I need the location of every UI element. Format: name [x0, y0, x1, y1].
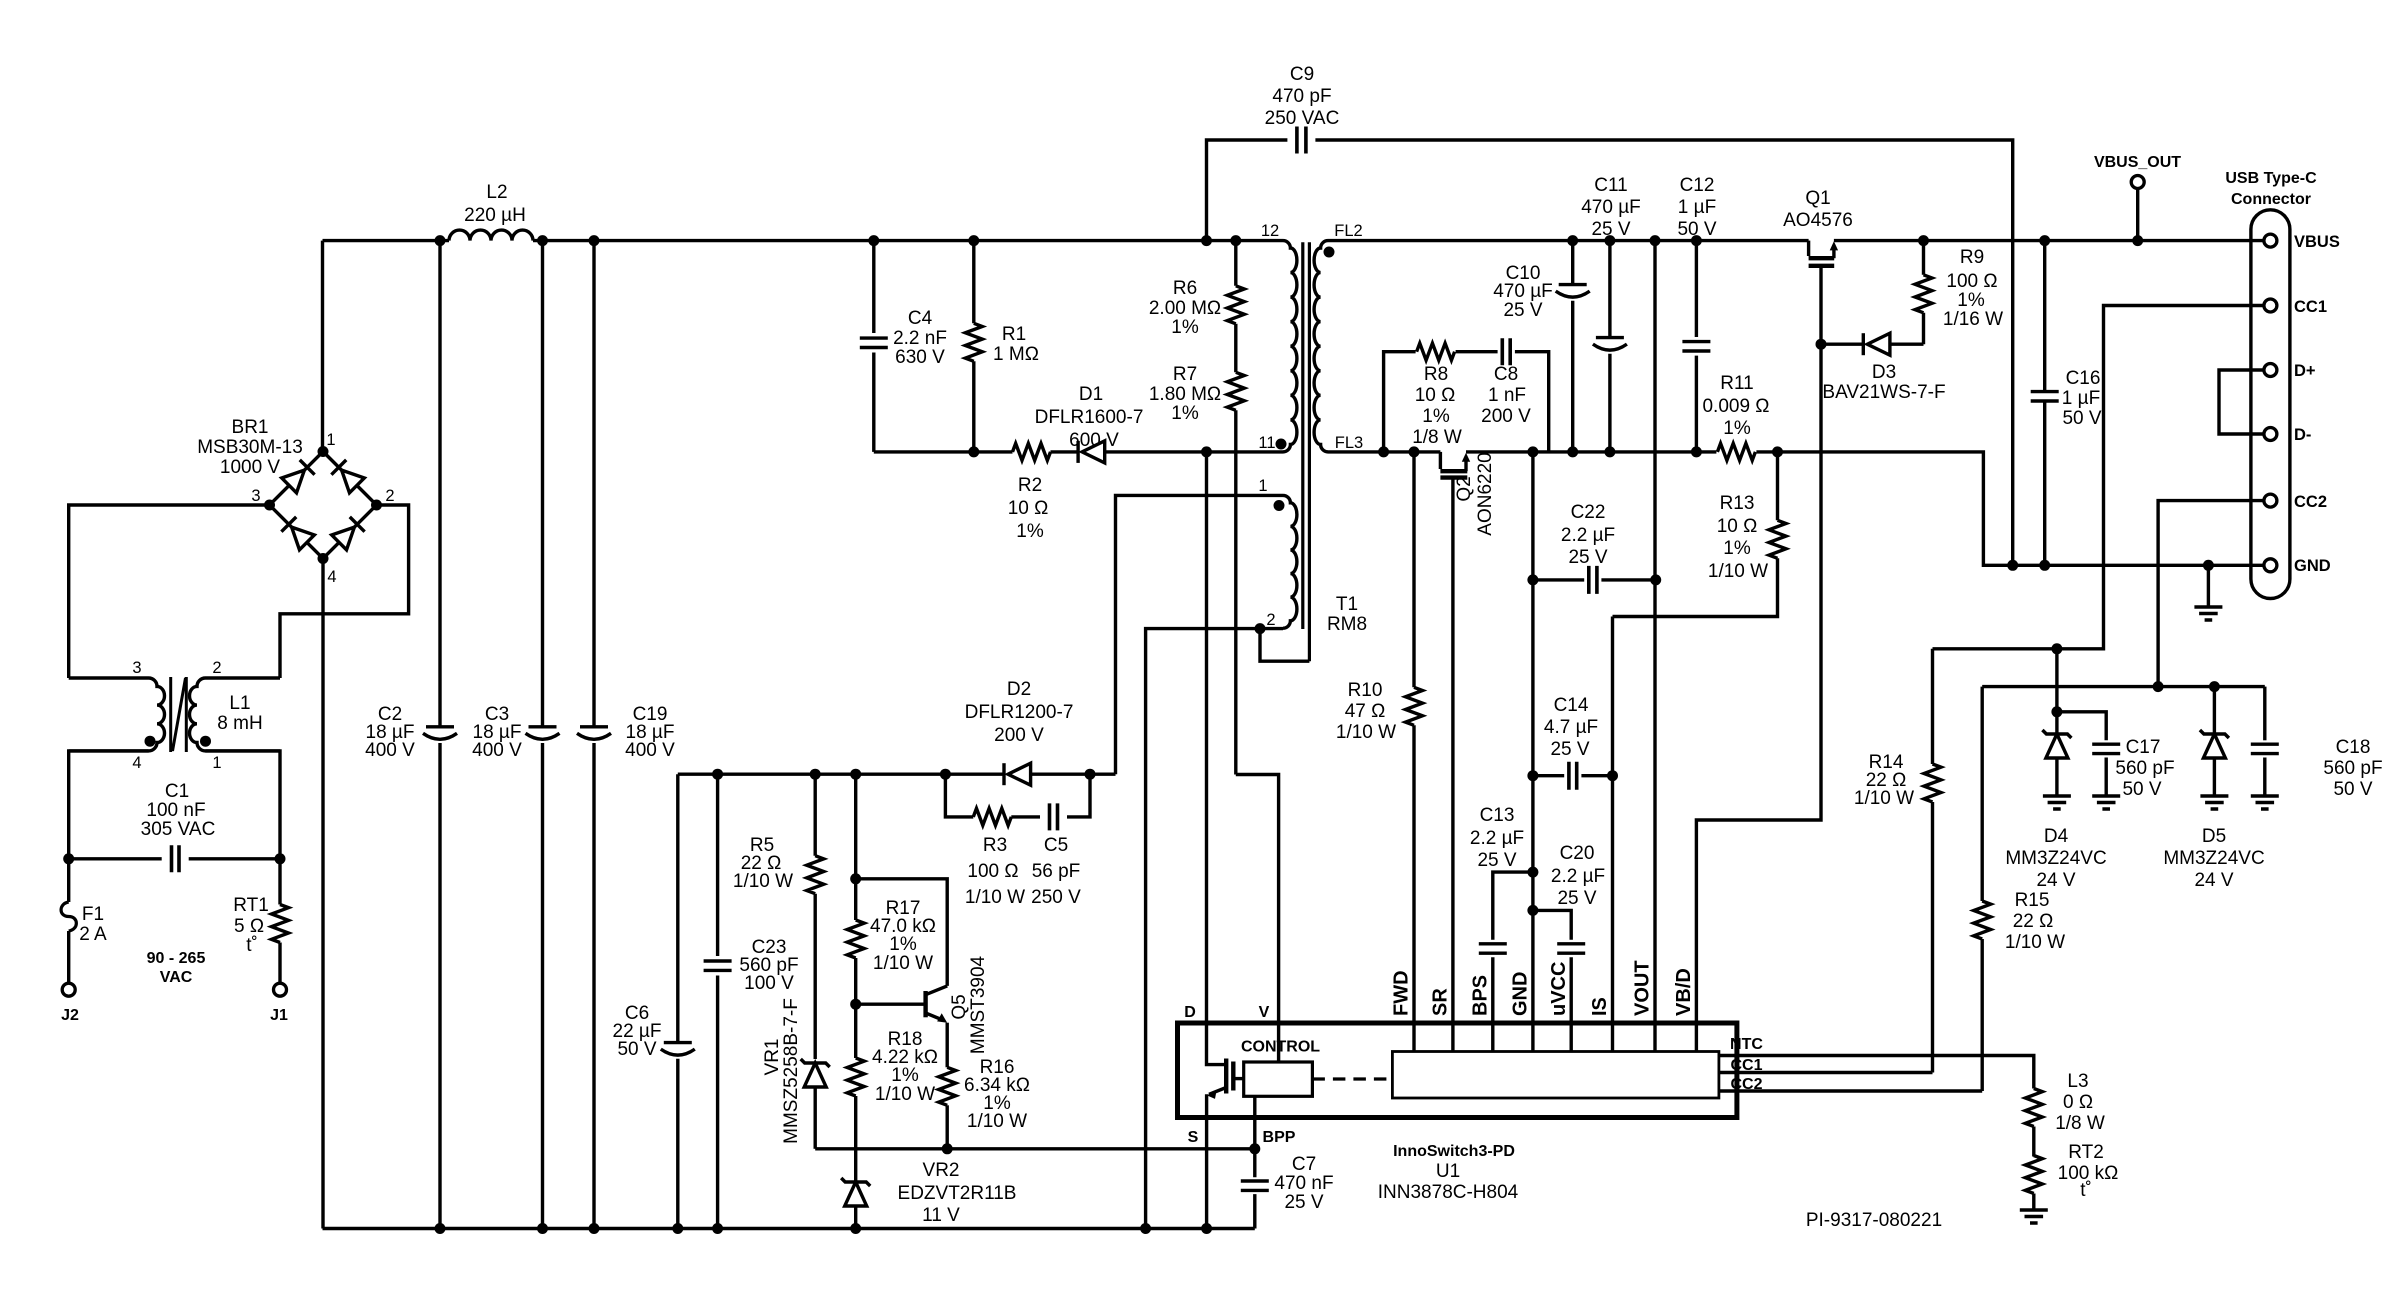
svg-text:C11: C11	[1594, 175, 1627, 196]
svg-text:1 µF: 1 µF	[2062, 388, 2100, 409]
wire BPS pin line + capacitor C13	[1493, 872, 1533, 1051]
zener VR2	[841, 1178, 870, 1206]
svg-text:C12: C12	[1680, 175, 1715, 196]
wire R3 C5 loop	[945, 774, 1090, 817]
svg-text:C5: C5	[1044, 835, 1068, 856]
transformer T1 phase dots	[1324, 247, 1335, 258]
svg-text:56 pF: 56 pF	[1032, 861, 1081, 882]
svg-text:R7: R7	[1173, 364, 1197, 385]
svg-text:CC1: CC1	[1730, 1057, 1762, 1074]
diode D3	[1821, 343, 1924, 346]
pin VBUS	[2264, 234, 2277, 247]
diode D2	[1004, 763, 1031, 785]
svg-text:t˚: t˚	[246, 935, 258, 956]
svg-text:560 pF: 560 pF	[2323, 758, 2382, 779]
wire FWD pin line + resistor R10	[1412, 452, 1415, 1052]
svg-text:2: 2	[212, 659, 221, 677]
common-mode choke L1	[69, 678, 165, 751]
svg-text:2.2 nF: 2.2 nF	[893, 328, 947, 349]
resistor R9	[1922, 241, 1925, 345]
svg-text:AON6220: AON6220	[1475, 452, 1496, 535]
MOSFET Q2 sync rectifier	[1439, 452, 1442, 469]
wire T1 pin2 shield stub	[1260, 629, 1309, 662]
zener D4 branch	[2057, 649, 2106, 741]
svg-text:FWD: FWD	[1391, 970, 1413, 1016]
svg-text:D3: D3	[1872, 362, 1896, 383]
wire L1 pin4 to J2	[69, 751, 149, 983]
svg-text:SR: SR	[1430, 988, 1452, 1016]
svg-text:RT1: RT1	[233, 895, 269, 916]
transformer T1 core	[1301, 242, 1304, 629]
wire CC1 net	[1933, 306, 2264, 649]
svg-text:470 pF: 470 pF	[1272, 86, 1331, 107]
svg-text:1%: 1%	[1422, 406, 1450, 427]
wire clamp node to pin11	[874, 450, 1283, 453]
svg-text:11: 11	[1258, 434, 1275, 452]
svg-text:R11: R11	[1720, 373, 1753, 394]
svg-text:D5: D5	[2202, 826, 2226, 847]
svg-text:S: S	[1188, 1129, 1199, 1146]
svg-text:GND: GND	[2294, 557, 2331, 575]
terminal J1	[274, 983, 287, 996]
IC U1 outer box	[1178, 1023, 1737, 1118]
svg-text:R13: R13	[1720, 493, 1755, 514]
svg-text:1 µF: 1 µF	[1678, 197, 1716, 218]
svg-text:24 V: 24 V	[2036, 870, 2075, 891]
svg-text:1/10 W: 1/10 W	[875, 1084, 935, 1105]
wire L1 pin1 to RT1	[205, 751, 280, 983]
svg-text:INN3878C-H804: INN3878C-H804	[1378, 1182, 1519, 1203]
svg-text:200 V: 200 V	[1481, 406, 1531, 427]
wire VOUT pin line	[1653, 241, 1656, 1052]
wire CC2 pin	[1719, 1089, 1982, 1092]
svg-text:R9: R9	[1960, 247, 1984, 268]
svg-text:R1: R1	[1002, 324, 1026, 345]
svg-text:1%: 1%	[1016, 521, 1044, 542]
svg-text:FL3: FL3	[1335, 434, 1363, 452]
svg-text:1/8 W: 1/8 W	[2055, 1113, 2105, 1134]
svg-text:22 Ω: 22 Ω	[2013, 911, 2054, 932]
capacitor C14	[1533, 774, 1613, 777]
svg-text:C16: C16	[2066, 368, 2101, 389]
svg-text:2: 2	[385, 487, 394, 505]
svg-text:1/10 W: 1/10 W	[2005, 932, 2065, 953]
IC U1 inner secondary block	[1392, 1052, 1719, 1099]
terminal VBUS_OUT	[2136, 189, 2139, 241]
resistor R8	[1417, 343, 1455, 360]
capacitor C8	[1502, 338, 1510, 365]
zener D5 branch	[2213, 687, 2216, 734]
svg-text:1: 1	[326, 431, 335, 449]
svg-text:1: 1	[1258, 477, 1267, 495]
svg-text:630 V: 630 V	[895, 347, 945, 368]
svg-text:305 VAC: 305 VAC	[141, 819, 216, 840]
svg-text:RT2: RT2	[2068, 1142, 2104, 1163]
wire CC1 pin	[1719, 1071, 1933, 1074]
svg-text:1%: 1%	[889, 934, 917, 955]
resistor R18	[854, 1004, 857, 1182]
svg-text:C9: C9	[1290, 64, 1314, 85]
svg-text:0.009 Ω: 0.009 Ω	[1702, 396, 1769, 417]
svg-text:VBUS_OUT: VBUS_OUT	[2094, 154, 2181, 171]
diode D1	[1078, 441, 1105, 463]
svg-text:EDZVT2R11B: EDZVT2R11B	[898, 1183, 1017, 1204]
svg-text:1 MΩ: 1 MΩ	[993, 344, 1039, 365]
svg-text:25 V: 25 V	[1477, 850, 1516, 871]
svg-text:NTC: NTC	[1730, 1036, 1763, 1053]
svg-text:600 V: 600 V	[1069, 430, 1119, 451]
svg-text:1.80 MΩ: 1.80 MΩ	[1149, 384, 1221, 405]
svg-text:BR1: BR1	[232, 417, 269, 438]
wire top rail primary DC bus	[323, 239, 1284, 242]
svg-text:1%: 1%	[1723, 418, 1751, 439]
bridge rectifier BR1	[270, 452, 377, 559]
IC U1 CONTROL box	[1244, 1062, 1313, 1096]
svg-text:CONTROL: CONTROL	[1241, 1039, 1320, 1056]
svg-text:2.00 MΩ: 2.00 MΩ	[1149, 298, 1221, 319]
svg-text:BAV21WS-7-F: BAV21WS-7-F	[1822, 382, 1945, 403]
svg-text:1%: 1%	[1171, 403, 1199, 424]
svg-text:5 Ω: 5 Ω	[234, 916, 264, 937]
svg-text:R8: R8	[1424, 364, 1448, 385]
svg-text:1/10 W: 1/10 W	[967, 1111, 1027, 1132]
wire uVCC pin line + capacitor C20	[1533, 910, 1571, 1051]
svg-text:VOUT: VOUT	[1632, 960, 1654, 1016]
svg-text:50 V: 50 V	[617, 1039, 656, 1060]
svg-text:VR1: VR1	[762, 1039, 783, 1076]
svg-text:1/10 W: 1/10 W	[1708, 561, 1768, 582]
capacitor C9	[1207, 140, 2013, 565]
svg-text:C4: C4	[908, 308, 933, 329]
svg-text:50 V: 50 V	[2062, 408, 2101, 429]
svg-text:200 V: 200 V	[994, 725, 1044, 746]
svg-text:100 V: 100 V	[744, 973, 794, 994]
capacitor C5	[1050, 803, 1058, 830]
svg-text:InnoSwitch3-PD: InnoSwitch3-PD	[1393, 1143, 1515, 1160]
svg-text:AO4576: AO4576	[1783, 210, 1853, 231]
svg-text:560 pF: 560 pF	[2115, 758, 2174, 779]
svg-text:25 V: 25 V	[1550, 739, 1589, 760]
svg-text:1/8 W: 1/8 W	[1412, 427, 1462, 448]
svg-text:R15: R15	[2015, 890, 2050, 911]
resistor R17	[854, 774, 857, 1004]
svg-text:2.2 µF: 2.2 µF	[1561, 525, 1615, 546]
capacitor C16	[2043, 241, 2046, 566]
svg-text:J2: J2	[61, 1007, 79, 1024]
svg-text:250 V: 250 V	[1031, 887, 1081, 908]
svg-text:400 V: 400 V	[472, 740, 522, 761]
svg-text:400 V: 400 V	[625, 740, 675, 761]
resistor R6	[1234, 241, 1237, 373]
svg-text:C18: C18	[2336, 737, 2371, 758]
resistor R14	[1931, 649, 1934, 1073]
svg-text:250 VAC: 250 VAC	[1265, 108, 1340, 129]
pin D+	[2264, 364, 2277, 377]
resistor R2	[1013, 443, 1051, 460]
wire S pin line	[1205, 1094, 1208, 1228]
svg-text:L2: L2	[486, 182, 507, 203]
svg-text:MSB30M-13: MSB30M-13	[197, 437, 303, 458]
wire IS pin line	[1611, 617, 1614, 1052]
capacitor C12	[1695, 241, 1698, 452]
svg-text:D-: D-	[2294, 426, 2311, 444]
svg-text:DFLR1200-7: DFLR1200-7	[965, 702, 1074, 723]
wire NTC pin	[1719, 1056, 2034, 1089]
wire BPP return line	[815, 1147, 1255, 1150]
wire VB/D pin line	[1696, 344, 1821, 1051]
junction dots bottom rail	[435, 1223, 446, 1234]
svg-text:C14: C14	[1554, 695, 1589, 716]
wire R7 to V pin jog	[1236, 775, 1279, 1063]
svg-text:VR2: VR2	[923, 1160, 960, 1181]
svg-text:1/10 W: 1/10 W	[965, 887, 1025, 908]
svg-text:1000 V: 1000 V	[220, 457, 281, 478]
transformer T1 shield line	[1308, 242, 1311, 661]
svg-text:BPS: BPS	[1470, 975, 1492, 1016]
svg-text:C22: C22	[1571, 502, 1606, 523]
wire bias rail	[678, 773, 1116, 776]
wire FL3 rail (secondary return)	[1328, 452, 2264, 565]
inductor L2	[449, 230, 533, 240]
svg-text:50 V: 50 V	[2122, 779, 2161, 800]
svg-text:3: 3	[251, 487, 260, 505]
svg-text:1 nF: 1 nF	[1488, 385, 1526, 406]
svg-text:400 V: 400 V	[365, 740, 415, 761]
svg-text:F1: F1	[82, 904, 104, 925]
capacitor C4	[872, 241, 875, 452]
resistor R13	[1613, 452, 1778, 617]
svg-text:C7: C7	[1292, 1154, 1316, 1175]
svg-text:1/10 W: 1/10 W	[733, 871, 793, 892]
svg-text:R2: R2	[1018, 475, 1042, 496]
transistor Q5	[856, 879, 948, 986]
svg-text:VAC: VAC	[160, 969, 193, 986]
svg-text:CC1: CC1	[2294, 298, 2327, 316]
svg-text:MM3Z24VC: MM3Z24VC	[2005, 848, 2106, 869]
svg-text:1%: 1%	[1723, 538, 1751, 559]
pin GND	[2264, 559, 2277, 572]
svg-text:D+: D+	[2294, 362, 2316, 380]
thermistor RT1	[272, 905, 289, 943]
transformer T1 bias winding 1-2	[1283, 495, 1297, 628]
svg-text:VBUS: VBUS	[2294, 233, 2340, 251]
svg-text:470 µF: 470 µF	[1493, 281, 1553, 302]
svg-text:4.7 µF: 4.7 µF	[1544, 717, 1598, 738]
capacitor C10	[1571, 241, 1574, 452]
svg-text:100 Ω: 100 Ω	[967, 861, 1018, 882]
capacitor C22	[1533, 578, 1656, 581]
svg-text:MMSZ5258B-7-F: MMSZ5258B-7-F	[781, 998, 802, 1144]
IC right pin labels	[1730, 1036, 1763, 1093]
svg-text:1: 1	[212, 754, 221, 772]
svg-text:4: 4	[327, 568, 336, 586]
svg-text:C8: C8	[1494, 364, 1518, 385]
svg-text:2: 2	[1266, 611, 1275, 629]
resistor R5	[814, 774, 817, 1059]
svg-text:PI-9317-080221: PI-9317-080221	[1806, 1210, 1942, 1231]
svg-text:1/10 W: 1/10 W	[1854, 788, 1914, 809]
svg-text:2.2 µF: 2.2 µF	[1551, 866, 1605, 887]
resistor R11	[1717, 443, 1755, 460]
ground at GND rail	[2207, 565, 2210, 607]
capacitor C17	[2092, 744, 2120, 753]
svg-text:1%: 1%	[1171, 317, 1199, 338]
svg-text:D4: D4	[2044, 826, 2069, 847]
svg-text:12: 12	[1261, 222, 1279, 240]
wire BR1 pin2 to L1 pin2	[280, 505, 409, 678]
svg-text:T1: T1	[1336, 594, 1358, 615]
resistor R16	[939, 1067, 956, 1105]
svg-text:470 nF: 470 nF	[1274, 1173, 1333, 1194]
resistor R3	[973, 808, 1011, 825]
IC U1 dashed link	[1312, 1077, 1392, 1080]
svg-text:10 Ω: 10 Ω	[1415, 385, 1456, 406]
wire T1 pin1 to bias rail	[1116, 495, 1284, 774]
svg-text:MMST3904: MMST3904	[968, 955, 989, 1054]
svg-text:11 V: 11 V	[922, 1205, 960, 1226]
svg-text:C13: C13	[1480, 805, 1515, 826]
resistor R1	[972, 241, 975, 452]
svg-text:8 mH: 8 mH	[217, 713, 262, 734]
svg-text:1%: 1%	[1957, 290, 1985, 311]
svg-text:1/10 W: 1/10 W	[1336, 722, 1396, 743]
resistor R15	[1980, 687, 1983, 1091]
svg-text:C20: C20	[1560, 843, 1595, 864]
wire BR1 pin3 to L1 pin3	[69, 505, 270, 678]
inductor L3	[2025, 1089, 2042, 1127]
svg-text:L3: L3	[2067, 1071, 2088, 1092]
svg-text:R10: R10	[1348, 680, 1383, 701]
wire BPP pin line	[1253, 1096, 1256, 1228]
svg-text:CC2: CC2	[1730, 1076, 1762, 1093]
svg-text:0 Ω: 0 Ω	[2063, 1092, 2093, 1113]
svg-text:50 V: 50 V	[2333, 779, 2372, 800]
svg-text:2 A: 2 A	[79, 924, 107, 945]
svg-text:1%: 1%	[891, 1065, 919, 1086]
svg-text:C17: C17	[2126, 737, 2161, 758]
svg-text:Q2: Q2	[1454, 476, 1475, 501]
svg-text:BPP: BPP	[1263, 1129, 1296, 1146]
svg-text:MM3Z24VC: MM3Z24VC	[2163, 848, 2264, 869]
svg-text:D2: D2	[1007, 679, 1031, 700]
transformer T1 secondary FL2-FL3	[1314, 241, 1328, 452]
resistor R7	[1234, 410, 1237, 774]
svg-text:VB/D: VB/D	[1673, 968, 1695, 1016]
MOSFET Q1	[1807, 241, 1810, 256]
capacitor C1	[69, 857, 280, 860]
wire bottom rail primary return	[323, 1227, 1255, 1230]
svg-text:90 - 265: 90 - 265	[147, 950, 206, 967]
svg-text:25 V: 25 V	[1557, 888, 1596, 909]
zener VR1	[801, 1059, 830, 1087]
svg-text:4: 4	[132, 754, 141, 772]
wire BR1 pin1 riser	[321, 241, 324, 452]
wire D pin line	[1207, 452, 1227, 1065]
svg-text:220 µH: 220 µH	[464, 205, 526, 226]
wire BR1 pin4 down to bottom rail	[321, 559, 324, 1229]
svg-text:50 V: 50 V	[1677, 219, 1716, 240]
svg-text:J1: J1	[270, 1007, 288, 1024]
svg-text:USB Type-C: USB Type-C	[2225, 170, 2317, 187]
svg-text:t˚: t˚	[2080, 1180, 2092, 1201]
svg-text:Connector: Connector	[2231, 191, 2311, 208]
snubber loop R8 C8	[1384, 352, 1549, 452]
capacitor C19	[592, 241, 595, 1229]
svg-text:U1: U1	[1436, 1161, 1460, 1182]
svg-text:C1: C1	[165, 781, 189, 802]
wire T1 pin2 to bottom rail	[1146, 629, 1283, 1229]
capacitor C2	[438, 241, 441, 1229]
capacitor C23	[716, 774, 719, 1228]
svg-text:uVCC: uVCC	[1548, 962, 1570, 1016]
capacitor C6	[676, 774, 679, 1228]
svg-text:Q5: Q5	[949, 994, 970, 1019]
wire SR pin line (Q2 gate)	[1451, 478, 1454, 1052]
thermistor RT2	[2025, 1156, 2042, 1194]
USB Type-C connector body	[2251, 210, 2290, 599]
capacitor C18	[2263, 687, 2266, 741]
svg-text:2.2 µF: 2.2 µF	[1470, 828, 1524, 849]
pin CC2	[2264, 494, 2277, 507]
svg-text:D: D	[1184, 1004, 1196, 1021]
svg-text:R3: R3	[983, 835, 1007, 856]
svg-text:RM8: RM8	[1327, 614, 1367, 635]
svg-text:FL2: FL2	[1334, 222, 1362, 240]
wire FL2 rail (secondary + rail)	[1328, 239, 2264, 242]
terminal J2	[62, 983, 75, 996]
pin D-	[2264, 428, 2277, 441]
capacitor C11	[1608, 241, 1611, 452]
wire CC2 net	[1982, 501, 2265, 687]
svg-text:CC2: CC2	[2294, 493, 2327, 511]
svg-text:10 Ω: 10 Ω	[1717, 516, 1758, 537]
svg-text:25 V: 25 V	[1568, 547, 1607, 568]
svg-text:47 Ω: 47 Ω	[1345, 701, 1386, 722]
svg-text:24 V: 24 V	[2194, 870, 2233, 891]
junction dots top rail	[435, 235, 446, 246]
capacitor C3	[541, 241, 544, 1229]
pin CC1	[2264, 299, 2277, 312]
svg-text:25 V: 25 V	[1284, 1192, 1323, 1213]
svg-text:10 Ω: 10 Ω	[1008, 498, 1049, 519]
svg-text:1/16 W: 1/16 W	[1943, 309, 2003, 330]
fuse F1	[61, 902, 76, 931]
svg-text:1/10 W: 1/10 W	[873, 953, 933, 974]
svg-text:25 V: 25 V	[1591, 219, 1630, 240]
svg-text:L1: L1	[229, 693, 250, 714]
svg-text:DFLR1600-7: DFLR1600-7	[1035, 407, 1144, 428]
svg-text:V: V	[1259, 1004, 1270, 1021]
svg-text:IS: IS	[1589, 997, 1611, 1016]
svg-text:GND: GND	[1510, 972, 1532, 1016]
svg-text:100 nF: 100 nF	[146, 800, 205, 821]
wire GND pin line	[1531, 452, 1534, 1052]
capacitor C7	[1241, 1181, 1269, 1190]
svg-text:R6: R6	[1173, 278, 1197, 299]
svg-text:3: 3	[132, 659, 141, 677]
IC internal MOSFET	[1224, 1059, 1228, 1094]
svg-text:100 Ω: 100 Ω	[1946, 271, 1997, 292]
wire D+ D- jumper	[2219, 370, 2264, 434]
svg-text:470 µF: 470 µF	[1581, 197, 1641, 218]
svg-text:D1: D1	[1079, 384, 1103, 405]
svg-text:25 V: 25 V	[1503, 300, 1542, 321]
svg-text:Q1: Q1	[1805, 188, 1830, 209]
transformer T1 primary 12-11	[1283, 241, 1297, 452]
